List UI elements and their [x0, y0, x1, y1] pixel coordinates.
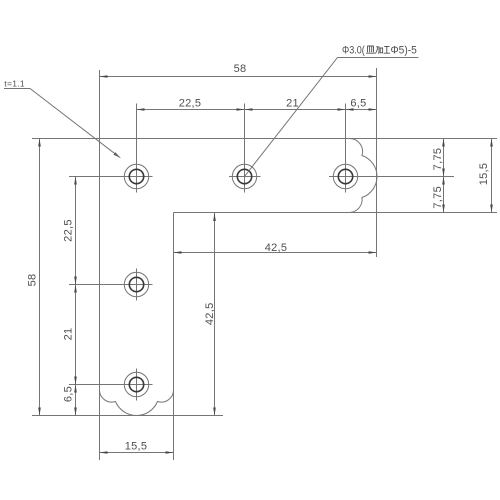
leader hole spec underline and line [245, 58, 419, 177]
svg-text:Φ5)-5: Φ5)-5 [391, 45, 417, 57]
hole H5 center marks [136, 369, 138, 401]
wire inner vertical edge + bottom extension x=173.5 [173, 213, 175, 461]
hole H5 bore circle [129, 377, 143, 391]
arrows dim 7,75 upper [442, 139, 445, 147]
hole H1 countersink circle [124, 164, 148, 188]
hole H4 countersink circle [124, 272, 148, 296]
label kanji ka (add) [375, 47, 382, 54]
wire bottom extreme extension y=415.5 [32, 415, 223, 417]
leader t=1.1 underline and line [4, 89, 120, 158]
svg-text:15,5: 15,5 [478, 163, 490, 186]
svg-text:6,5: 6,5 [63, 386, 75, 402]
arrows dim 7,75 lower [442, 177, 445, 185]
svg-text:Φ3.0(: Φ3.0( [342, 45, 365, 57]
dim 22,5 top line [137, 109, 245, 111]
dim 6,5 left line [75, 385, 77, 416]
wire arm bottom edge + right extensions y=212.5 [174, 212, 498, 214]
hole H2 bore circle [237, 169, 251, 183]
dim 15,5 bottom line [100, 452, 174, 454]
svg-text:22,5: 22,5 [179, 98, 202, 110]
svg-text:22,5: 22,5 [63, 219, 75, 242]
arrows dim 58 left [38, 139, 41, 147]
hole H3 center marks + right extension [345, 104, 347, 193]
arrows dim 6,5 left [74, 385, 77, 393]
arrows dim 15,5 bottom [100, 451, 108, 454]
dim 7,75 upper line [443, 139, 445, 177]
arrows dim 21 left [74, 285, 77, 293]
hole H2 center marks [244, 104, 246, 193]
hole H3 bore circle [338, 169, 352, 183]
hole H4 bore circle [129, 277, 143, 291]
label kanji kou (work) [384, 47, 390, 54]
svg-text:15,5: 15,5 [125, 440, 148, 452]
hole H1 center marks [136, 104, 138, 193]
dim 58 top line [100, 76, 377, 78]
dim 42,5 horizontal line [174, 252, 377, 254]
dim 7,75 lower line [443, 177, 445, 213]
hole H3 countersink circle [333, 164, 357, 188]
plate bottom scallop edge [100, 390, 174, 416]
arrows dim 22,5 top [137, 108, 145, 111]
svg-text:42,5: 42,5 [204, 302, 216, 325]
hole H1 bore circle [129, 169, 143, 183]
dim 15,5 right line [491, 139, 493, 213]
arrows dim 42,5 vertical [213, 213, 216, 221]
wire top edge + extensions y=138.5 [32, 138, 497, 140]
svg-text:21: 21 [286, 98, 299, 110]
plate right scallop edge [350, 139, 378, 213]
svg-text:t=1.1: t=1.1 [4, 79, 25, 89]
arrows dim 22,5 left [74, 177, 77, 185]
arrows dim 6,5 top [346, 108, 354, 111]
svg-text:7,75: 7,75 [432, 148, 444, 171]
arrows dim 42,5 horizontal [174, 251, 182, 254]
wire right extreme extension x=376.5 [376, 68, 378, 257]
arrow leader t=1.1 [114, 152, 122, 158]
svg-text:58: 58 [27, 274, 39, 287]
label hole spec text [342, 45, 417, 57]
dim 21 top line [245, 109, 346, 111]
dim 42,5 vertical line [214, 213, 216, 416]
svg-text:6,5: 6,5 [350, 98, 366, 110]
svg-text:7,75: 7,75 [432, 186, 444, 209]
label kanji sara (dish) [366, 46, 390, 53]
dim 6,5 top line [346, 109, 377, 111]
hole H5 countersink circle [124, 372, 148, 396]
dim 22,5 left line [75, 177, 77, 285]
dim 21 left line [75, 285, 77, 385]
dim 58 left line [39, 139, 41, 416]
svg-text:21: 21 [63, 328, 75, 341]
arrows dim 58 top [100, 75, 108, 78]
hole H4 center marks [136, 269, 138, 301]
svg-text:42,5: 42,5 [265, 242, 288, 254]
svg-text:58: 58 [234, 63, 247, 75]
hole H2 countersink circle [232, 164, 256, 188]
arrows dim 21 top [245, 108, 253, 111]
arrows dim 15,5 right [490, 139, 493, 147]
wire left edge + extensions x=99.5 [99, 70, 101, 460]
